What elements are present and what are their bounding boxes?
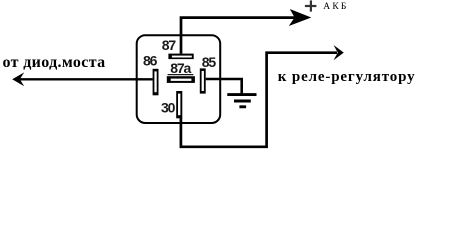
- svg-text:86: 86: [143, 53, 158, 69]
- plus sign: [305, 0, 317, 11]
- svg-text:87а: 87а: [170, 60, 191, 76]
- pin 86 label: [143, 53, 158, 69]
- wire (pin 86 to left arrow): [20, 78, 153, 80]
- wire (pin 85 to ground): [206, 79, 242, 94]
- wire (pin 87 up and right to battery arrow): [181, 18, 297, 54]
- pin 87 contact bar: [168, 54, 193, 60]
- arrowhead to relay-regulator (right): [334, 45, 344, 60]
- relay body K1: [137, 35, 221, 123]
- pin 87a contact bar: [167, 76, 195, 83]
- svg-text:85: 85: [202, 54, 217, 70]
- pin 30 contact bar: [176, 91, 182, 118]
- pin 87 label: [162, 37, 177, 53]
- arrowhead to + AKB: [289, 9, 312, 26]
- arrowhead to diode bridge (left): [12, 72, 24, 86]
- svg-text:87: 87: [162, 37, 177, 53]
- ground: [227, 95, 256, 107]
- svg-text:АКБ: АКБ: [323, 2, 348, 12]
- svg-text:от диод.моста: от диод.моста: [3, 54, 106, 71]
- label от диод.моста: [3, 54, 106, 71]
- label АКБ: [323, 2, 348, 12]
- pin 85 contact bar: [200, 68, 206, 93]
- svg-text:к реле-регулятору: к реле-регулятору: [278, 69, 416, 85]
- pin 87a label (underlined): [168, 60, 194, 76]
- wire (pin 30 down, right and up to regulator arrow): [181, 53, 337, 147]
- pin 86 contact bar: [153, 69, 159, 96]
- svg-text:30: 30: [161, 100, 176, 116]
- label к реле-регулятору: [278, 69, 416, 85]
- pin 30 label: [161, 100, 176, 116]
- pin 85 label: [202, 54, 217, 70]
